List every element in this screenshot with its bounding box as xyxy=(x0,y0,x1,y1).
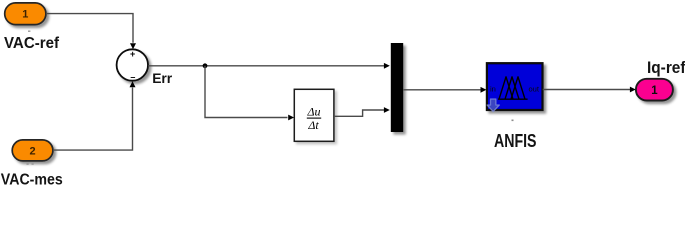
membership function icon xyxy=(498,77,528,99)
svg-text:Iq-ref: Iq-ref xyxy=(647,58,685,77)
wire: ANFIS output to outport xyxy=(543,87,636,93)
svg-text:VAC-ref: VAC-ref xyxy=(4,35,60,52)
outport 1 Iq-ref xyxy=(636,79,673,101)
svg-text:Δt: Δt xyxy=(307,118,319,132)
stray marks under inport 2 xyxy=(27,163,29,165)
wire: mux output to ANFIS input xyxy=(403,87,486,93)
wire: derivative output to mux input 2 xyxy=(334,107,390,116)
wire from inport 2 to sum (-) xyxy=(53,81,136,150)
mux block (black bar) xyxy=(391,43,403,132)
stray mark under inport 1 xyxy=(28,31,30,32)
svg-text:+: + xyxy=(130,49,135,59)
wire from inport 1 to sum (+) xyxy=(46,14,136,50)
svg-text:out: out xyxy=(529,85,540,94)
svg-text:1: 1 xyxy=(651,85,658,97)
svg-text:1: 1 xyxy=(22,9,28,21)
svg-text:2: 2 xyxy=(29,145,35,157)
inport 1 VAC-ref xyxy=(5,3,46,25)
svg-text:Err: Err xyxy=(152,70,173,86)
derivative block (du/dt) xyxy=(294,89,334,141)
needs-update badge (gray down arrow) on ANFIS xyxy=(487,99,499,112)
svg-text:–: – xyxy=(130,72,135,82)
inport 2 VAC-mes xyxy=(12,140,53,161)
svg-text:VAC-mes: VAC-mes xyxy=(1,171,63,185)
wire branch: junction down to derivative input xyxy=(205,66,294,121)
svg-text:in: in xyxy=(490,85,496,94)
junction node on Err wire xyxy=(203,63,208,68)
wire Err: sum output to mux input 1 xyxy=(148,63,390,69)
stray speck above ANFIS label xyxy=(512,120,514,122)
svg-text:ANFIS: ANFIS xyxy=(494,131,537,151)
sum block U1 (add/subtract circle) xyxy=(117,49,148,82)
svg-text:Δu: Δu xyxy=(306,104,320,118)
ANFIS block (fuzzy logic controller) xyxy=(487,63,543,110)
